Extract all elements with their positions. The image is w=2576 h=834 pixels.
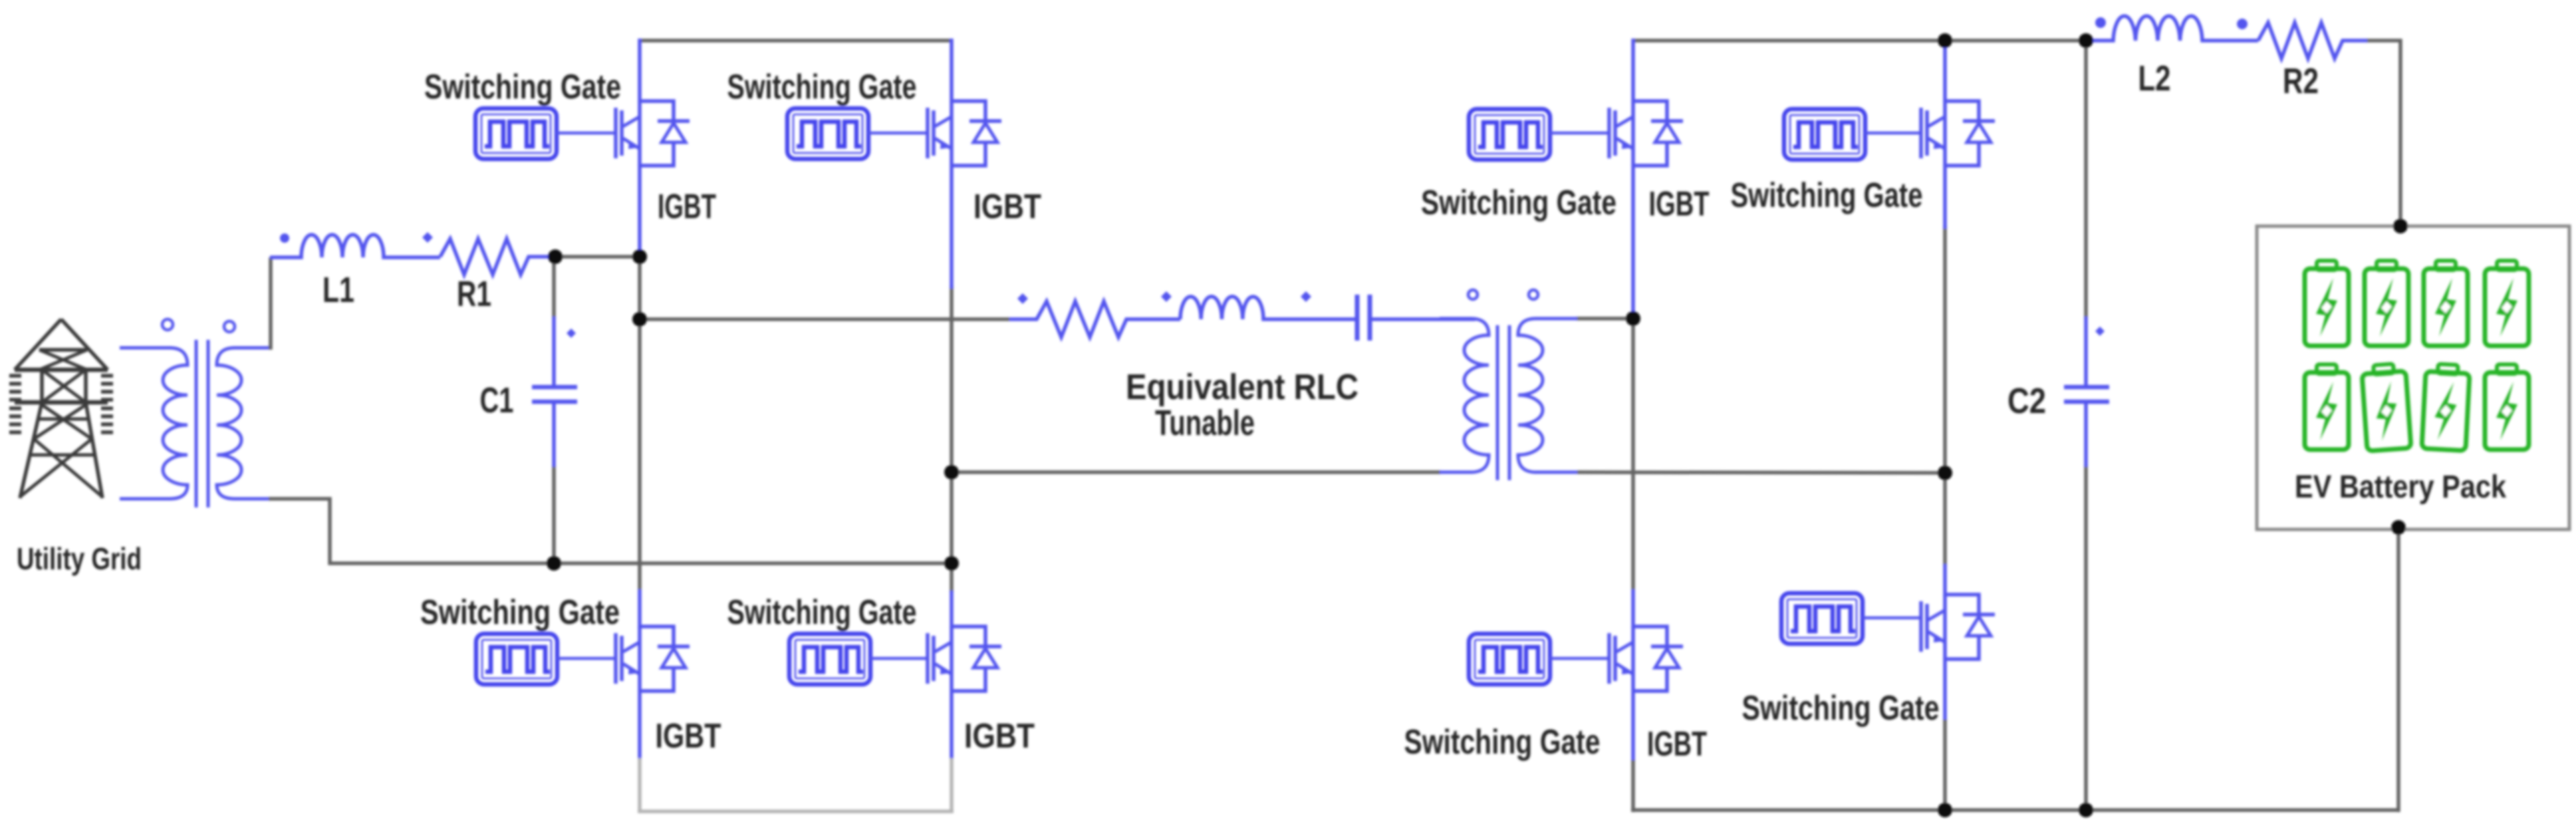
svg-text:C1: C1 <box>480 380 514 420</box>
wire gate lead RB top-right <box>1865 132 1922 135</box>
label Switching Gate (RB bottom-left) <box>1404 723 1601 762</box>
wire gate lead RB bottom-left <box>1550 657 1610 660</box>
junction node C2 top <box>2079 33 2093 48</box>
label Switching Gate (LB top-right) <box>727 68 917 106</box>
R1 polarity dot <box>422 232 433 243</box>
battery icon row1-3 <box>2424 261 2468 346</box>
EV battery pack box <box>2257 226 2569 529</box>
RLC polarity dot 2 <box>1161 291 1172 302</box>
wire right-bridge right rail (dark) <box>1943 226 1947 565</box>
battery icon row2-3 <box>2422 363 2470 450</box>
wire right rail IGBT leads (blue) <box>950 39 954 760</box>
battery icon row2-2 <box>2361 363 2411 451</box>
wire C2 branch upper <box>2084 39 2088 318</box>
wire left-bridge left rail upper (dark) <box>638 255 642 589</box>
IGBT RB top-right <box>1921 101 1995 166</box>
label IGBT (LB bottom-right) <box>964 717 1035 756</box>
junction node C1 bottom <box>547 556 561 571</box>
svg-text:Switching Gate: Switching Gate <box>424 68 621 106</box>
junction node T2/RB left rail <box>1626 311 1640 326</box>
svg-text:IGBT: IGBT <box>973 188 1041 226</box>
RLC polarity dot 3 <box>1301 291 1311 302</box>
svg-text:C2: C2 <box>2007 381 2046 421</box>
switching gate box LB bottom-right <box>789 634 870 684</box>
battery icon row2-4 <box>2485 364 2529 450</box>
capacitor C2 <box>2064 317 2109 467</box>
switching gate box RB bottom-right <box>1781 593 1863 644</box>
battery icon row1-4 <box>2485 261 2529 346</box>
wire left-bridge right rail (dark) <box>950 286 954 593</box>
wire right-bridge left rail upper (dark) <box>1631 315 1635 589</box>
svg-text:L2: L2 <box>2138 59 2171 98</box>
junction node lower output <box>944 465 959 480</box>
label C1 <box>480 380 514 420</box>
IGBT LB top-left <box>616 101 690 166</box>
svg-text:Utility Grid: Utility Grid <box>17 541 142 576</box>
wire R1 to left rail <box>555 255 641 259</box>
inductor L2 <box>2088 16 2258 41</box>
wire left-bridge right rail lower (light gray) <box>950 758 954 813</box>
svg-text:EV Battery Pack: EV Battery Pack <box>2295 470 2506 505</box>
IGBT LB top-right <box>928 101 1001 166</box>
svg-text:R1: R1 <box>457 274 491 314</box>
wire right-bridge top rail <box>1633 39 2088 43</box>
junction node C2 bottom <box>2079 803 2093 817</box>
battery icon row1-2 <box>2365 261 2408 346</box>
wire battery bottom return <box>2396 527 2400 812</box>
switching gate box LB bottom-left <box>476 634 557 684</box>
resistor R2 <box>2258 23 2367 59</box>
label Utility Grid <box>17 541 142 576</box>
IGBT RB bottom-right <box>1921 595 1995 659</box>
capacitor C1 <box>532 317 577 467</box>
inductor L-equivalent <box>1180 297 1355 319</box>
wire left-bridge top rail <box>640 39 952 43</box>
label L1 <box>322 270 354 310</box>
RLC polarity dot 1 <box>1017 293 1028 304</box>
IGBT RB bottom-left <box>1609 626 1683 691</box>
svg-text:IGBT: IGBT <box>656 717 721 756</box>
label IGBT (LB top-right) <box>973 188 1041 226</box>
inductor L1 <box>270 235 440 257</box>
wire right-bridge bottom rail <box>1631 808 2398 812</box>
switching gate box LB top-right <box>787 108 868 159</box>
junction node return/right rail <box>944 556 959 571</box>
wire grid-transformer bottom lead <box>120 497 166 501</box>
wire right-bridge left rail lower (dark) <box>1631 760 1635 812</box>
wire left-bridge bottom edge (light gray) <box>638 809 954 813</box>
resistor R1 <box>440 239 557 275</box>
junction node left rail top <box>632 249 647 264</box>
transformer T2 <box>1440 319 1577 480</box>
switching gate box RB top-right <box>1784 109 1865 160</box>
svg-text:Switching Gate: Switching Gate <box>1421 184 1616 222</box>
wire T1 secondary top to L1 <box>269 257 271 348</box>
svg-text:R2: R2 <box>2283 61 2319 101</box>
label IGBT (RB top) <box>1649 185 1710 223</box>
transformer T1 <box>120 340 269 507</box>
switching gate box LB top-left <box>475 108 557 159</box>
label C2 <box>2007 381 2046 421</box>
svg-text:IGBT: IGBT <box>658 188 716 226</box>
junction node left rail mid <box>632 312 647 327</box>
wire mid output upper (node A) <box>640 317 1009 321</box>
R2 polarity dot <box>2237 19 2248 29</box>
wire left-bridge left rail lower (light gray) <box>638 758 642 813</box>
svg-text:IGBT: IGBT <box>1647 725 1707 764</box>
label IGBT (LB top-left) <box>658 188 716 226</box>
svg-text:Tunable: Tunable <box>1155 403 1255 443</box>
battery icon row2-1 <box>2305 364 2349 450</box>
svg-text:Equivalent RLC: Equivalent RLC <box>1126 367 1358 407</box>
label Switching Gate (RB bottom-right) <box>1742 689 1940 728</box>
wire RB left rail IGBT leads (blue) <box>1631 39 1635 762</box>
label Switching Gate (LB bottom-right) <box>727 593 917 632</box>
junction node R1/C1 <box>548 249 563 264</box>
wire gate lead RB bottom-right <box>1863 617 1922 620</box>
wire gate lead LB top-left <box>557 132 617 135</box>
wire C1 branch upper <box>552 255 556 318</box>
label R2 <box>2283 61 2319 101</box>
IGBT LB bottom-right <box>928 626 1001 691</box>
wire T2 secondary bottom to RB <box>1577 472 1945 473</box>
T1 polarity dot left <box>162 319 173 330</box>
label Equivalent RLC <box>1126 367 1358 407</box>
L2 polarity dot <box>2095 17 2106 28</box>
wire RB right rail IGBT leads (blue) <box>1943 39 1947 721</box>
svg-text:L1: L1 <box>322 270 354 310</box>
wire gate lead LB bottom-right <box>870 657 929 660</box>
junction node RB bottom-right <box>1938 803 1952 817</box>
svg-text:Switching Gate: Switching Gate <box>727 593 917 632</box>
svg-text:Switching Gate: Switching Gate <box>727 68 917 106</box>
junction node battery top <box>2393 219 2408 233</box>
C2 polarity dot <box>2095 327 2105 336</box>
T2 polarity dot left <box>1468 290 1478 299</box>
wire T2 secondary top to RB <box>1576 317 1635 321</box>
L1 polarity dot <box>280 233 289 243</box>
wire mid output lower (node B) <box>952 470 1441 474</box>
T1 polarity dot right <box>224 321 235 332</box>
IGBT LB bottom-left <box>616 626 690 691</box>
wire gate lead LB top-right <box>868 132 929 135</box>
svg-text:Switching Gate: Switching Gate <box>1742 689 1940 728</box>
wire gate lead RB top-left <box>1550 132 1610 135</box>
label Switching Gate (RB top-left) <box>1421 184 1616 222</box>
T2 polarity dot right <box>1529 290 1538 299</box>
wire T1 secondary bottom return <box>269 499 952 563</box>
wire R2 to battery <box>2366 41 2400 228</box>
switching gate box RB top-left <box>1469 109 1550 160</box>
switching gate box RB bottom-left <box>1469 634 1550 684</box>
utility grid tower <box>9 319 113 498</box>
label L2 <box>2138 59 2171 98</box>
svg-text:Switching Gate: Switching Gate <box>1404 723 1601 762</box>
junction node battery bottom <box>2391 520 2406 535</box>
resistor R-equivalent <box>1009 301 1180 337</box>
wire grid-transformer top lead <box>120 347 166 350</box>
label IGBT (LB bottom-left) <box>656 717 721 756</box>
wire gate lead LB bottom-left <box>557 657 617 660</box>
label R1 <box>457 274 491 314</box>
svg-text:Switching Gate: Switching Gate <box>1731 176 1923 215</box>
svg-text:IGBT: IGBT <box>964 717 1035 756</box>
C1 polarity dot <box>567 329 576 338</box>
wire right-bridge right rail lower (dark) <box>1943 720 1947 812</box>
label EV Battery Pack <box>2295 470 2506 505</box>
wire C1 branch lower <box>552 466 556 565</box>
label Switching Gate (RB top-right) <box>1731 176 1923 215</box>
wire left rail IGBT leads (blue) <box>638 39 642 760</box>
label Switching Gate (LB top-left) <box>424 68 621 106</box>
svg-text:IGBT: IGBT <box>1649 185 1710 223</box>
svg-text:Switching Gate: Switching Gate <box>420 593 620 632</box>
IGBT RB top-left <box>1609 101 1683 166</box>
junction node T2/RB right rail <box>1938 466 1952 480</box>
wire C2 branch lower <box>2084 466 2088 812</box>
label Switching Gate (LB bottom-left) <box>420 593 620 632</box>
label Tunable <box>1155 403 1255 443</box>
junction node RB top-right <box>1938 33 1952 48</box>
capacitor C-equivalent <box>1357 295 1476 341</box>
label IGBT (RB bottom) <box>1647 725 1707 764</box>
battery icon row1-1 <box>2305 261 2349 346</box>
